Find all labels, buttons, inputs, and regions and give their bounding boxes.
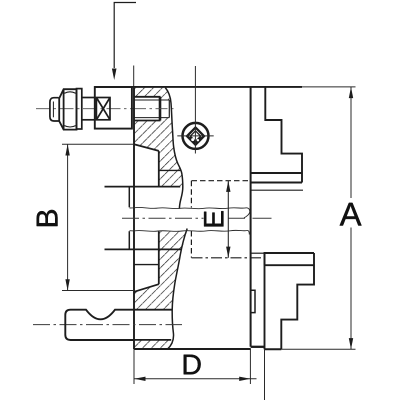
key socket circle (183, 123, 209, 149)
bolt end cap (50, 98, 59, 121)
bolt square shaft (82, 98, 95, 120)
label A (340, 203, 362, 226)
dimension D extension right (249, 349, 251, 384)
face channel bottom (251, 346, 265, 348)
bottom jaw underside and extension to A (265, 348, 282, 350)
pin centerline (33, 324, 182, 326)
break wavy line lower (130, 230, 250, 234)
label E (204, 210, 226, 228)
hatched section, body lower wedge (159, 231, 187, 284)
dimension D extension left (133, 349, 135, 384)
dimension B extension bottom (62, 290, 134, 292)
guide slot lower slant (134, 284, 159, 292)
clamp cylinder (95, 87, 132, 129)
hatched section, body upper between bolt hole and guide slot (134, 121, 183, 187)
pin hole upper line (134, 309, 172, 311)
socket crosshair horizontal (177, 135, 213, 137)
slot ledge line upper (159, 169, 181, 171)
top face and extension line to A (95, 86, 302, 88)
extension line above body corner (133, 66, 135, 88)
dimension E line (227, 181, 229, 258)
body break curve lower (167, 229, 187, 350)
bolt centerline inside hole (134, 108, 174, 110)
bottom face (134, 348, 251, 350)
bottom jaw stepped profile (281, 253, 314, 349)
label B (37, 210, 58, 226)
hatched section, body lower below pin hole (134, 340, 172, 349)
slot ledge line lower (134, 264, 159, 266)
main centerline (122, 217, 248, 219)
label D (184, 355, 201, 375)
key socket square (187, 128, 204, 145)
body break curve upper (165, 88, 183, 209)
hatched section, body upper above bolt hole (134, 88, 170, 97)
chuck face line (250, 87, 252, 347)
dimension D line (134, 378, 256, 380)
pin hole lower line (134, 339, 171, 341)
hidden guideway dashed left (190, 181, 192, 208)
hatched slivers beside thread bore (161, 97, 171, 100)
bolt centerline (36, 108, 134, 110)
socket crosshair vertical (194, 66, 196, 154)
leader arrow at top (114, 3, 136, 69)
bore edge line lower (105, 248, 182, 250)
bottom rail face link line (251, 252, 265, 254)
camlock pin (65, 310, 134, 340)
extension line below bottom jaw (264, 349, 266, 400)
body left edge (133, 88, 135, 349)
washer (77, 89, 82, 129)
hex nut (59, 89, 76, 129)
hidden guideway dashed top (192, 180, 251, 182)
key socket inner square (190, 131, 200, 141)
square section X-box (96, 98, 110, 120)
key socket dark sector (188, 137, 202, 145)
bottom jaw left edge (264, 253, 266, 349)
guide slot upper slant (134, 144, 159, 151)
guide slot lower right edge (158, 232, 160, 285)
bore edge line upper (105, 186, 181, 188)
dimension B line (67, 144, 69, 290)
top jaw rail (251, 172, 302, 174)
top jaw serration line (251, 189, 303, 191)
recess bottom edge lower (128, 231, 130, 249)
dimension A line (350, 87, 352, 198)
guide slot upper right edge (158, 151, 160, 187)
dimension B extension top (62, 143, 134, 145)
recess bottom edge upper (128, 187, 130, 208)
hatched section, body lower between slot and pin hole (134, 284, 175, 310)
break wavy line upper (130, 207, 250, 217)
top jaw stepped profile (265, 87, 302, 183)
face tongue (251, 290, 255, 312)
threaded hole in body (135, 97, 161, 121)
guideway center dash-dot bottom (192, 257, 265, 259)
